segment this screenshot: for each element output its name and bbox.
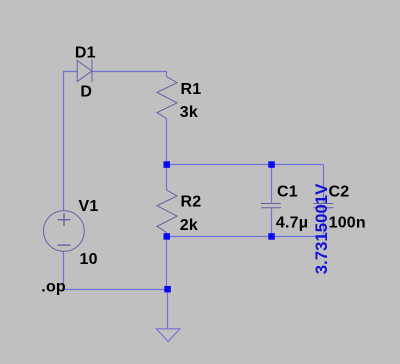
svg-text:10: 10 <box>80 251 98 268</box>
svg-text:.op: .op <box>41 279 66 296</box>
wire ground stem <box>167 290 169 329</box>
svg-text:3.7315001V: 3.7315001V <box>312 183 331 274</box>
wire <box>92 72 166 77</box>
resistor R1 <box>157 77 177 119</box>
wire <box>166 233 168 237</box>
node junction dot <box>164 161 171 168</box>
diode D1 <box>77 60 92 83</box>
svg-text:R1: R1 <box>181 81 202 98</box>
capacitor C2 <box>313 204 333 208</box>
wire <box>323 208 325 237</box>
wire <box>166 237 168 290</box>
wire top rail left segment (V1 top to diode anode) <box>64 72 324 329</box>
wire <box>166 119 168 165</box>
node junction dot <box>164 286 171 293</box>
wire <box>271 165 273 204</box>
svg-text:2k: 2k <box>180 217 198 234</box>
svg-text:R2: R2 <box>181 194 202 211</box>
wire <box>323 165 325 204</box>
svg-text:C2: C2 <box>329 183 350 200</box>
wire <box>64 72 78 212</box>
node junction dot <box>164 233 171 240</box>
wire <box>167 236 324 238</box>
svg-text:D: D <box>80 84 92 101</box>
node junction dot <box>268 161 275 168</box>
wire <box>166 165 168 191</box>
resistor R2 <box>157 190 177 233</box>
svg-text:V1: V1 <box>79 198 99 215</box>
node junction dot <box>268 233 275 240</box>
wire <box>63 252 65 290</box>
wire <box>271 208 273 236</box>
wire <box>167 164 324 166</box>
svg-text:3k: 3k <box>180 104 198 121</box>
svg-text:4.7µ: 4.7µ <box>276 214 308 231</box>
voltage source V1 <box>44 211 85 252</box>
svg-text:100n: 100n <box>329 214 366 231</box>
capacitor C1 <box>261 204 281 208</box>
ground <box>156 329 180 342</box>
wire <box>64 289 168 291</box>
svg-text:D1: D1 <box>75 45 96 62</box>
svg-text:C1: C1 <box>277 183 298 200</box>
